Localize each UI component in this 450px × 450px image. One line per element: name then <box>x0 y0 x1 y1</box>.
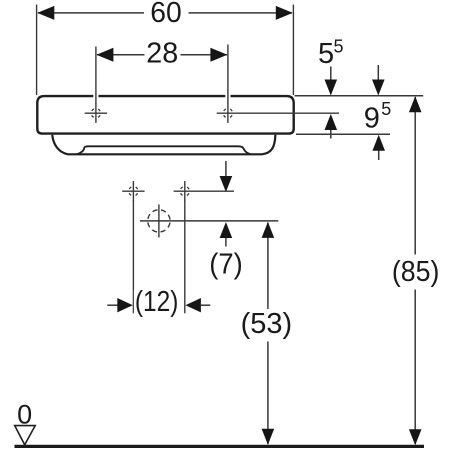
svg-text:0: 0 <box>17 400 32 430</box>
svg-text:28: 28 <box>146 38 178 70</box>
svg-text:(7): (7) <box>209 249 243 281</box>
svg-text:(53): (53) <box>241 308 293 340</box>
svg-text:9: 9 <box>364 102 380 134</box>
svg-text:5: 5 <box>318 38 334 70</box>
svg-text:5: 5 <box>381 99 391 119</box>
svg-text:(12): (12) <box>135 286 179 318</box>
svg-text:(85): (85) <box>392 256 440 288</box>
svg-text:60: 60 <box>150 0 182 29</box>
svg-text:5: 5 <box>334 36 344 56</box>
